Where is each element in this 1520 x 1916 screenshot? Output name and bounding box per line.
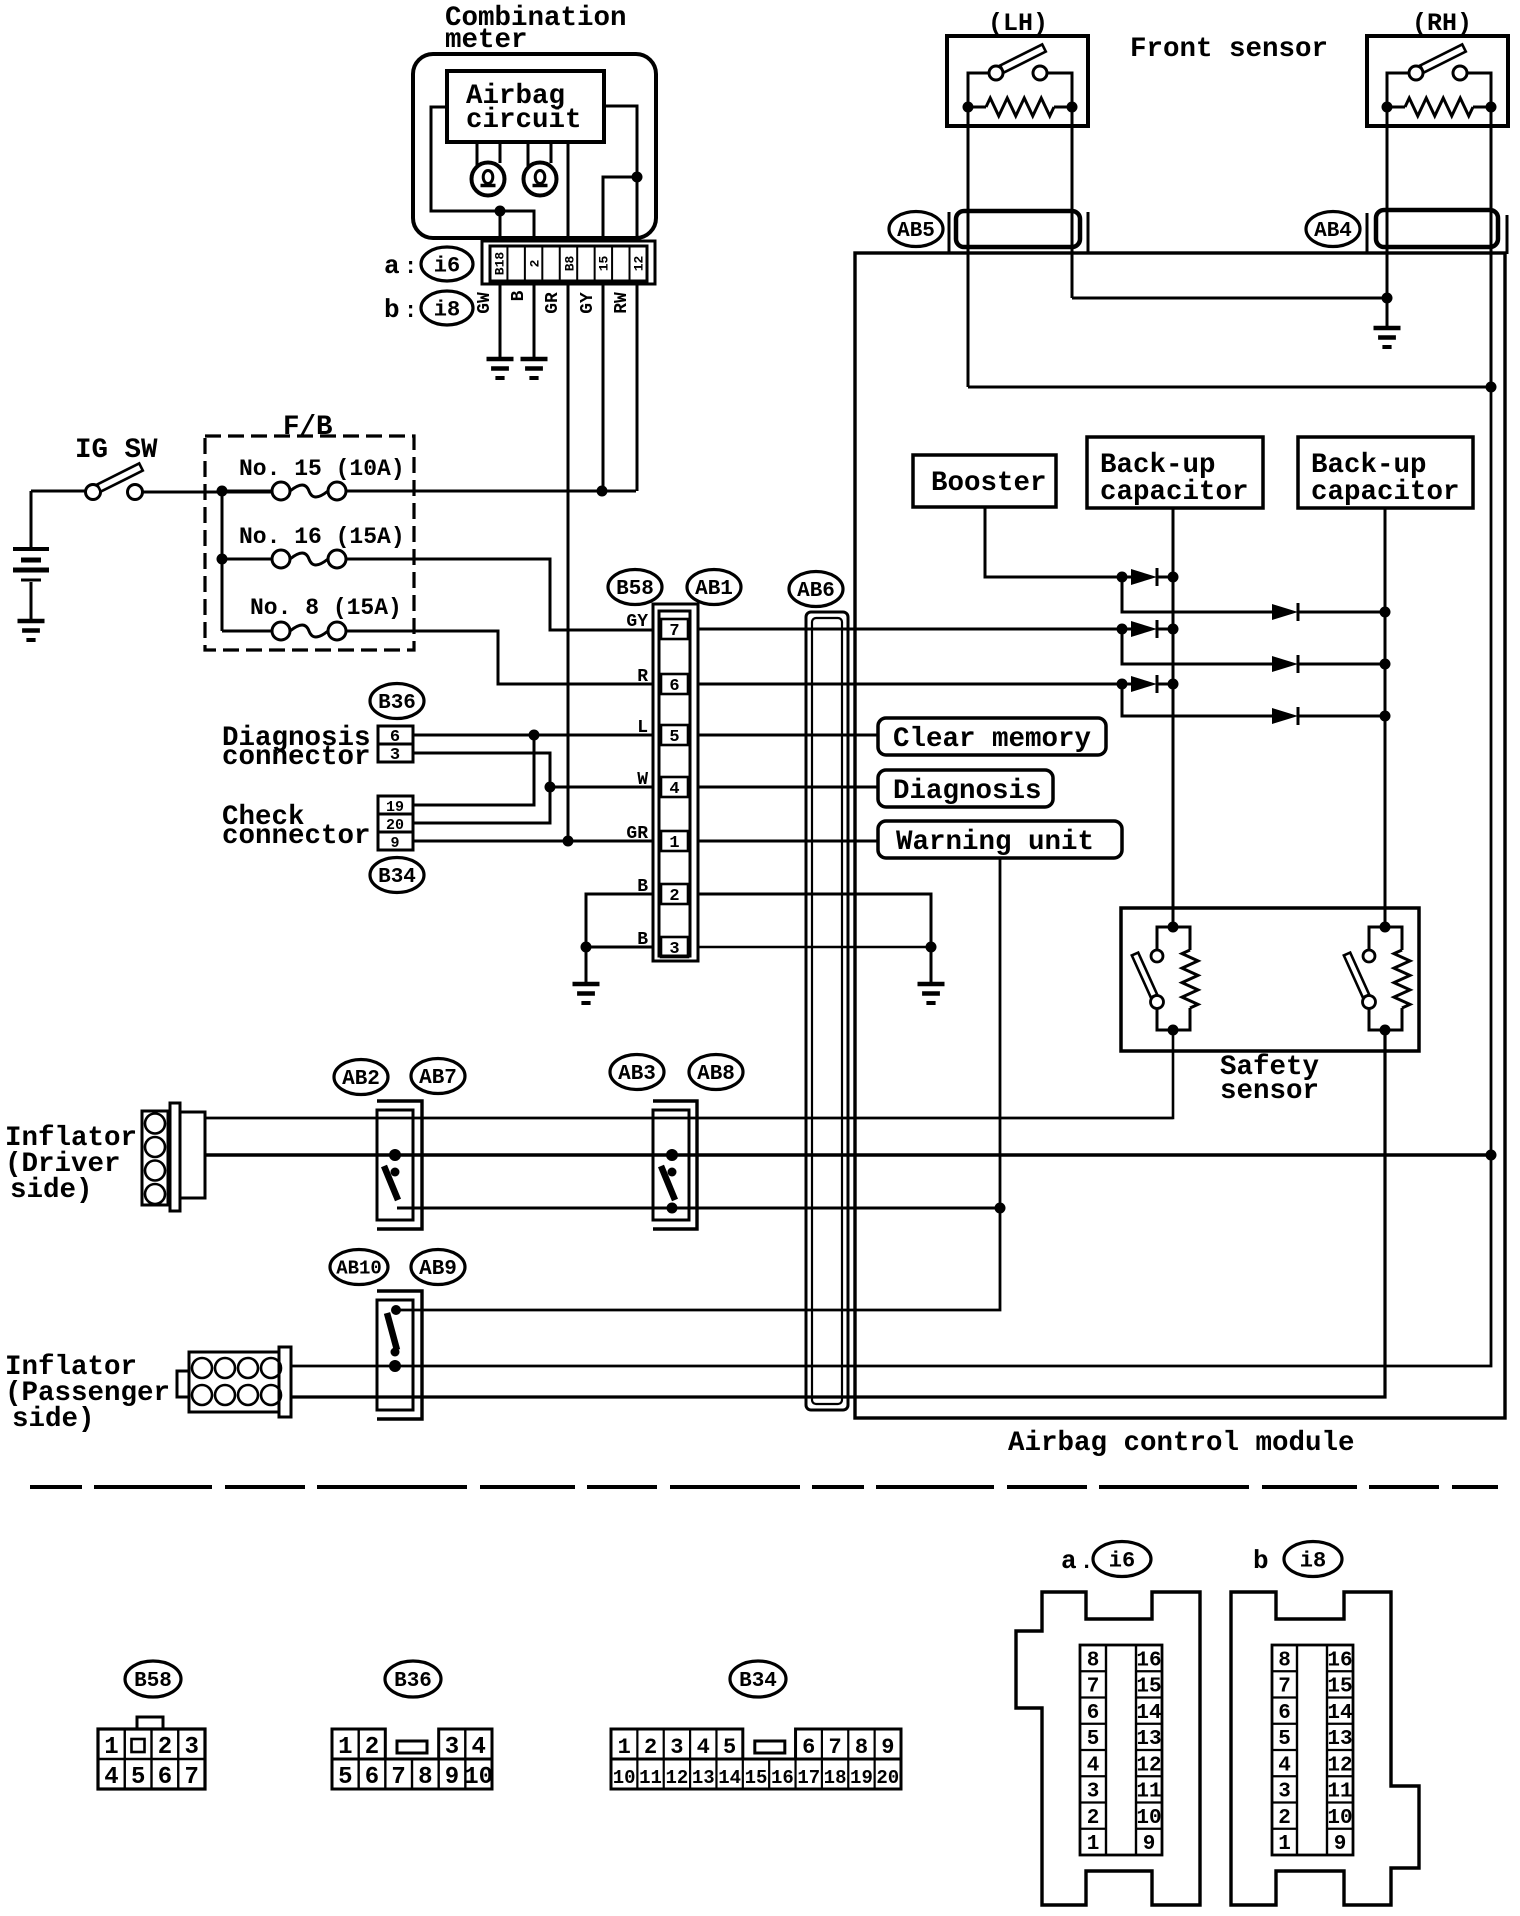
svg-text:F/B: F/B [283, 412, 333, 443]
svg-text:AB4: AB4 [1314, 220, 1352, 243]
svg-text:B18: B18 [493, 252, 508, 276]
svg-text:.: . [1080, 1550, 1093, 1575]
connector AB1 shell [653, 604, 698, 961]
svg-text:AB8: AB8 [697, 1063, 735, 1086]
node sensor return junction [1486, 382, 1497, 393]
wire LH left down [967, 107, 970, 387]
svg-text:2: 2 [158, 1734, 172, 1761]
svg-text:side): side) [12, 1404, 95, 1435]
svg-text:AB9: AB9 [419, 1258, 457, 1281]
svg-text:GY: GY [578, 292, 598, 314]
connector i6 outline [1016, 1592, 1200, 1905]
connector strip meter outer [482, 241, 655, 284]
node cap2 rail booster [1380, 607, 1391, 618]
wire W to pin4 [550, 786, 653, 789]
diode D6 R-cap2 [1272, 708, 1298, 724]
wire fuse15 corner up to meter RW [602, 490, 636, 493]
svg-text:18: 18 [824, 1767, 847, 1789]
wire check19 to L [413, 735, 534, 805]
switch shorting AB2 [389, 1149, 401, 1161]
svg-text:7: 7 [1087, 1676, 1100, 1699]
wire RH right down [1490, 107, 1493, 387]
wire cap1 rail [1172, 508, 1175, 925]
connector B36 pin diagram [332, 1759, 492, 1789]
svg-text:No. 15 (10A): No. 15 (10A) [239, 456, 405, 482]
node B left junction [581, 942, 592, 953]
wire GR pin1 to warning unit [698, 840, 878, 843]
svg-text:12: 12 [1136, 1754, 1161, 1777]
oval connector B58 [608, 570, 662, 605]
node GY diode tap [1117, 624, 1128, 635]
svg-text:15: 15 [745, 1767, 768, 1789]
connector AB4 body [1366, 213, 1369, 254]
clear memory box [878, 718, 1106, 755]
svg-text:4: 4 [104, 1764, 118, 1791]
wire B pin2 left [586, 894, 653, 947]
svg-text:3: 3 [1087, 1781, 1100, 1804]
svg-text:16: 16 [1327, 1649, 1352, 1672]
oval connector AB7 [411, 1059, 465, 1094]
svg-text:2: 2 [1087, 1807, 1100, 1830]
svg-text:10: 10 [1136, 1807, 1161, 1830]
svg-text:6: 6 [669, 677, 679, 696]
wire cap2 rail [1384, 508, 1387, 925]
wire driver low [397, 1207, 1000, 1210]
wire R pin6 to diodes [698, 683, 1122, 686]
diagnosis box [878, 770, 1053, 807]
svg-text:14: 14 [1327, 1702, 1352, 1725]
svg-text:2: 2 [669, 887, 679, 906]
wire meter pin-a lead [499, 211, 502, 241]
oval connector AB2 [334, 1060, 388, 1095]
safety sensor box [1121, 908, 1419, 1051]
oval connector AB6 [789, 572, 843, 607]
svg-text:5: 5 [669, 728, 679, 747]
svg-text:circuit: circuit [466, 105, 582, 136]
svg-text:15: 15 [1327, 1676, 1352, 1699]
svg-text:7: 7 [184, 1764, 198, 1791]
svg-text:2: 2 [644, 1735, 657, 1760]
wire meter internal right loop [604, 106, 637, 241]
wire GR meter-to-check vertical [567, 284, 570, 841]
node cap1 rail GY [1168, 624, 1179, 635]
svg-text:capacitor: capacitor [1311, 477, 1460, 508]
booster box [913, 455, 1056, 507]
svg-text:B58: B58 [616, 578, 654, 601]
ground B right [918, 982, 945, 987]
svg-text:AB10: AB10 [336, 1257, 382, 1279]
wire B right ground lead [930, 947, 933, 984]
svg-text:7: 7 [669, 622, 679, 641]
svg-text:No. 16 (15A): No. 16 (15A) [239, 524, 405, 550]
wire B pin3 left [586, 946, 653, 949]
safety sensor right unit [1380, 922, 1391, 933]
inflator driver connector [142, 1111, 168, 1205]
backup capacitor 1 box [1087, 437, 1263, 508]
svg-text:GR: GR [626, 824, 648, 844]
wire GY meter vertical [602, 284, 605, 491]
connector AB5 body [948, 212, 951, 253]
front sensor RH switch [1409, 66, 1423, 80]
node meter RW junction [632, 172, 643, 183]
svg-text:3: 3 [184, 1734, 198, 1761]
svg-text:a: a [384, 251, 400, 281]
svg-text:i8: i8 [1300, 1548, 1326, 1573]
wire meter ground lead 2 + label B [533, 284, 536, 358]
wire LH right down [1071, 107, 1074, 298]
connector i6 pin table [1080, 1645, 1162, 1855]
combination meter box [413, 54, 656, 238]
svg-text:9: 9 [1143, 1833, 1156, 1856]
svg-text:Warning unit: Warning unit [896, 827, 1094, 858]
node meter internal junction [495, 206, 506, 217]
svg-text:13: 13 [1136, 1728, 1161, 1751]
battery B1 [30, 491, 33, 547]
svg-text:1: 1 [1278, 1833, 1291, 1856]
svg-text::: : [404, 255, 417, 280]
svg-text:4: 4 [1278, 1754, 1291, 1777]
node cap2 rail R [1380, 711, 1391, 722]
wire fuse16 to pin7 GY [346, 559, 653, 630]
svg-text:9: 9 [445, 1764, 459, 1791]
diode D2 booster-cap2 [1272, 604, 1298, 620]
svg-text:9: 9 [390, 835, 399, 852]
connector i8 pin table [1272, 1645, 1353, 1855]
svg-text:i8: i8 [434, 297, 460, 322]
svg-text:10: 10 [613, 1767, 636, 1789]
oval connector AB9 [411, 1250, 465, 1285]
svg-text:R: R [637, 667, 648, 687]
svg-text:Diagnosis: Diagnosis [893, 776, 1042, 807]
svg-text:5: 5 [723, 1735, 736, 1760]
svg-text:8: 8 [855, 1735, 868, 1760]
switch IG SW [31, 490, 85, 493]
wire meter internal left loop [431, 107, 534, 241]
svg-text:GR: GR [543, 292, 563, 314]
svg-text:B34: B34 [378, 866, 416, 889]
svg-text:Airbag control module: Airbag control module [1008, 1428, 1355, 1459]
svg-text:9: 9 [1334, 1833, 1347, 1856]
diode D5 R-cap1 [1122, 683, 1131, 686]
wire driver top [205, 1117, 1173, 1120]
svg-text:16: 16 [1136, 1649, 1161, 1672]
airbag circuit box U-meter [447, 71, 604, 142]
node GR junction [563, 836, 574, 847]
svg-text:7: 7 [1278, 1676, 1291, 1699]
svg-text:i6: i6 [1109, 1548, 1135, 1573]
svg-text:17: 17 [797, 1767, 820, 1789]
svg-text:No. 8 (15A): No. 8 (15A) [250, 595, 402, 621]
connector i8 outline [1231, 1592, 1419, 1905]
wire fuse8 to pin6 R [346, 631, 653, 684]
wire LH-RH ground link [1072, 297, 1387, 300]
svg-text:10: 10 [464, 1764, 493, 1791]
oval connector AB3 [610, 1055, 664, 1090]
svg-text:12: 12 [1327, 1754, 1352, 1777]
svg-text:B36: B36 [394, 1670, 432, 1693]
wire GR check-to-pin1 [413, 840, 653, 843]
front sensor LH switch [989, 66, 1003, 80]
oval connector B34 bottom [730, 1661, 786, 1697]
svg-text:4: 4 [1087, 1754, 1100, 1777]
oval connector AB5 [889, 212, 943, 247]
svg-text:5: 5 [1087, 1728, 1100, 1751]
backup capacitor 2 box [1298, 437, 1473, 508]
svg-text:3: 3 [669, 940, 679, 959]
front sensor RH resistor [1387, 73, 1409, 107]
svg-text:11: 11 [1136, 1781, 1161, 1804]
svg-text:connector: connector [222, 821, 371, 852]
diode D4 GY-cap2 [1272, 656, 1298, 672]
wire safety-left to driver top [205, 1030, 1173, 1118]
svg-text:20: 20 [386, 817, 404, 834]
svg-text:Clear memory: Clear memory [893, 724, 1091, 755]
svg-text:a: a [1061, 1546, 1077, 1576]
diode D1 booster-cap1 [1122, 576, 1131, 579]
svg-text:16: 16 [771, 1767, 794, 1789]
oval connector B36 bottom [385, 1661, 441, 1697]
svg-text:19: 19 [850, 1767, 873, 1789]
switch shorting AB10 [391, 1305, 401, 1315]
wire B left ground lead [585, 947, 588, 984]
svg-text:2: 2 [1278, 1807, 1291, 1830]
front sensor LH resistor [968, 73, 989, 107]
node W junction [545, 782, 556, 793]
wire warning unit down [396, 858, 1000, 1310]
svg-text:4: 4 [669, 780, 679, 799]
front sensor RH box [1367, 36, 1508, 126]
svg-text:5: 5 [1278, 1728, 1291, 1751]
svg-text:i6: i6 [434, 253, 460, 278]
wire L diagnosis-to-pin5 [413, 734, 653, 737]
diode D3 GY-cap1 [1122, 628, 1131, 631]
warning unit box [878, 821, 1122, 858]
wire L pin5 to clear memory [698, 734, 878, 737]
wire sensor return to passenger mid [291, 1155, 1491, 1366]
svg-text:B36: B36 [378, 692, 416, 715]
wire fuse15 out to meter taps [346, 490, 602, 493]
connector B58 pin cells [661, 619, 688, 639]
node L junction [529, 730, 540, 741]
switch shorting AB3 [666, 1149, 678, 1161]
svg-text:B34: B34 [739, 1670, 777, 1693]
svg-text:3: 3 [1278, 1781, 1291, 1804]
inflator passenger connector [177, 1371, 189, 1397]
svg-text:2: 2 [528, 259, 543, 267]
svg-text::: : [404, 299, 417, 324]
ground battery [18, 619, 45, 624]
node fuse bus 1 [217, 486, 228, 497]
svg-text:capacitor: capacitor [1100, 477, 1249, 508]
connector strip meter cells [490, 246, 647, 281]
svg-text:3: 3 [390, 746, 400, 765]
svg-text:6: 6 [158, 1764, 172, 1791]
svg-text:6: 6 [1278, 1702, 1291, 1725]
node cap1 rail R [1168, 679, 1179, 690]
wire W pin4 to diagnosis [698, 786, 878, 789]
svg-text:14: 14 [1136, 1702, 1161, 1725]
svg-text:15: 15 [1136, 1676, 1161, 1699]
wire meter GY branch [603, 177, 637, 241]
diagnosis connector pins [378, 726, 413, 744]
node booster diode tap [1117, 572, 1128, 583]
svg-text:Front sensor: Front sensor [1130, 34, 1328, 65]
wire GY jog to cap2 [1122, 629, 1272, 664]
node GY tap on fuse15 line [597, 486, 608, 497]
wire front sensor ground lead [1386, 298, 1389, 327]
svg-text:11: 11 [639, 1767, 662, 1789]
ground meter 2 [521, 357, 548, 362]
connector AB10/AB9 body [377, 1291, 422, 1419]
svg-text:6: 6 [802, 1735, 815, 1760]
fuse box F/B outline [205, 436, 414, 650]
ground front sensor [1374, 326, 1401, 331]
svg-text:B58: B58 [134, 1670, 172, 1693]
svg-text:AB5: AB5 [897, 220, 935, 243]
svg-text:13: 13 [1327, 1728, 1352, 1751]
oval connector AB10 [330, 1250, 388, 1285]
node cap2 rail GY [1380, 659, 1391, 670]
ground meter 1 [487, 357, 514, 362]
svg-text:b: b [384, 295, 400, 325]
connector AB3/AB8 body [653, 1101, 697, 1229]
svg-text:AB7: AB7 [419, 1067, 457, 1090]
connector AB6 body [806, 612, 848, 1410]
node warning-driver junction [995, 1203, 1006, 1214]
svg-text:Booster: Booster [931, 468, 1047, 499]
svg-text:10: 10 [1327, 1807, 1352, 1830]
svg-text:AB3: AB3 [618, 1063, 656, 1086]
svg-text:1: 1 [338, 1734, 352, 1761]
svg-text:connector: connector [222, 742, 371, 773]
connector B58 pin diagram [137, 1717, 163, 1729]
safety sensor left unit [1168, 922, 1179, 933]
node driver mid junction [1486, 1150, 1497, 1161]
wire B pin3 right [698, 946, 931, 949]
svg-text:side): side) [10, 1175, 93, 1206]
svg-text:(RH): (RH) [1412, 9, 1472, 38]
svg-text:7: 7 [391, 1764, 405, 1791]
svg-text:7: 7 [828, 1735, 841, 1760]
svg-text:1: 1 [1087, 1833, 1100, 1856]
svg-text:AB6: AB6 [797, 580, 835, 603]
wire meter ground lead 1 + label GW [499, 284, 502, 358]
svg-text:6: 6 [1087, 1702, 1100, 1725]
svg-text:19: 19 [386, 799, 404, 816]
svg-text:4: 4 [697, 1735, 710, 1760]
wire GY pin7 to diodes [698, 628, 1122, 631]
wire fuse bus vertical [221, 491, 224, 631]
check connector pins [378, 796, 413, 814]
svg-text:L: L [637, 718, 648, 738]
svg-text:AB1: AB1 [695, 578, 733, 601]
wire B pin2 right [698, 894, 931, 947]
wire R jog to cap2 [1122, 684, 1272, 716]
ground B left [573, 982, 600, 987]
oval connector B36 [370, 684, 424, 719]
svg-text:8: 8 [1278, 1649, 1291, 1672]
svg-text:(LH): (LH) [988, 9, 1048, 38]
node B right junction [926, 942, 937, 953]
svg-text:4: 4 [471, 1734, 485, 1761]
svg-text:2: 2 [365, 1734, 379, 1761]
svg-text:1: 1 [104, 1734, 118, 1761]
oval connector B34 [370, 858, 424, 893]
connector AB2/AB7 body [377, 1101, 422, 1229]
svg-text:RW: RW [612, 292, 632, 314]
lamp L1 airbag warning [476, 142, 479, 166]
svg-text:3: 3 [445, 1734, 459, 1761]
svg-text:B: B [509, 290, 529, 301]
oval connector B58 bottom [125, 1661, 181, 1697]
wire IG-to-FB [142, 491, 273, 494]
svg-text:6: 6 [390, 728, 400, 747]
oval connector AB8 [689, 1055, 743, 1090]
wire booster jog to cap2 [1122, 577, 1272, 612]
svg-text:sensor: sensor [1220, 1076, 1319, 1107]
connector B58 body [659, 611, 690, 956]
wire RH left down [1386, 107, 1389, 298]
divider line [30, 1485, 1498, 1489]
svg-text:1: 1 [618, 1735, 631, 1760]
svg-text:8: 8 [418, 1764, 432, 1791]
front sensor LH box [947, 36, 1088, 126]
svg-text:8: 8 [1087, 1649, 1100, 1672]
svg-text:GY: GY [626, 612, 648, 632]
wire safety-right to passenger low [291, 1030, 1385, 1397]
svg-text:GW: GW [475, 292, 495, 314]
svg-text:13: 13 [692, 1767, 715, 1789]
wire driver mid [205, 1153, 1491, 1157]
svg-text:b: b [1253, 1546, 1269, 1576]
connector B34 pin diagram [611, 1759, 901, 1789]
svg-text:IG SW: IG SW [75, 435, 158, 466]
airbag control module box [855, 253, 1505, 1418]
svg-text:W: W [637, 770, 648, 790]
node fuse bus 2 [217, 554, 228, 565]
svg-text:15: 15 [597, 256, 612, 272]
wire meter GR lead [567, 142, 570, 241]
oval connector AB1 [687, 570, 741, 605]
svg-text:20: 20 [876, 1767, 899, 1789]
node front sensor ground junction [1382, 293, 1393, 304]
svg-text:11: 11 [1327, 1781, 1352, 1804]
svg-text:12: 12 [666, 1767, 689, 1789]
svg-text:AB2: AB2 [342, 1068, 380, 1091]
lamp L2 airbag warning [527, 142, 530, 166]
oval connector AB4 [1306, 212, 1360, 247]
svg-text:14: 14 [718, 1767, 741, 1789]
svg-text:5: 5 [338, 1764, 352, 1791]
svg-text:5: 5 [131, 1764, 145, 1791]
svg-text:9: 9 [881, 1735, 894, 1760]
wire RW meter vertical [636, 284, 639, 491]
node cap1 rail booster [1168, 572, 1179, 583]
node R diode tap [1117, 679, 1128, 690]
svg-text:1: 1 [669, 834, 679, 853]
svg-text:meter: meter [445, 25, 528, 56]
svg-text:12: 12 [632, 256, 647, 272]
wire diagnosis pin3 to W [413, 753, 550, 823]
svg-text:B8: B8 [563, 256, 578, 272]
svg-text:3: 3 [670, 1735, 683, 1760]
wire sensor return bottom [968, 386, 1491, 389]
wire booster feed [985, 507, 1122, 577]
svg-text:6: 6 [365, 1764, 379, 1791]
wire sensor return into module [1490, 387, 1493, 1155]
